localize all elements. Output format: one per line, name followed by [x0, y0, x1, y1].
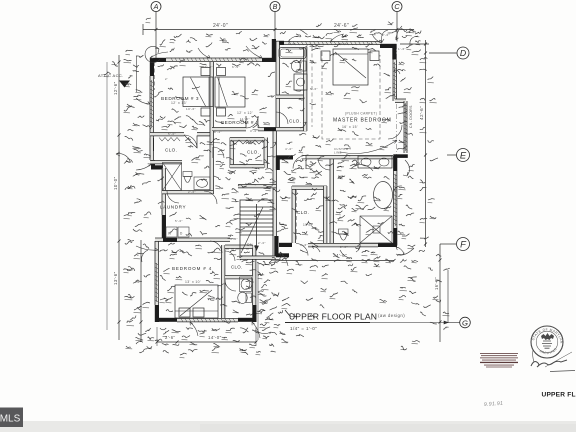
- annotation mark 205: [424, 305, 431, 308]
- extra annotation 132: [252, 330, 259, 333]
- svg-text:42'-6": 42'-6": [419, 106, 424, 120]
- grid bubble E: [457, 149, 470, 162]
- extra annotation 76: [226, 158, 233, 160]
- svg-text:B: B: [273, 2, 278, 11]
- extra annotation 66: [412, 260, 418, 262]
- grid B stem: [274, 12, 276, 45]
- extra annotation 94: [338, 161, 344, 164]
- annotation mark 88: [321, 288, 326, 290]
- lr tick1: [278, 259, 281, 262]
- wave4 annotation 12: [272, 257, 280, 260]
- extra annotation 119: [166, 297, 173, 301]
- leader small top right 2: [410, 36, 418, 45]
- grid bubble A: [151, 2, 161, 12]
- annotation mark 110: [380, 146, 388, 147]
- exterior wall jog at master right: [395, 99, 406, 102]
- stair break line: [241, 207, 263, 253]
- wave3 annotation 33: [296, 59, 301, 62]
- wave3 annotation 12: [366, 43, 372, 47]
- svg-text:2'-6": 2'-6": [188, 190, 196, 194]
- annotation mark 22: [127, 159, 133, 163]
- annotation mark 254: [274, 324, 280, 325]
- grid D leader: [429, 52, 457, 54]
- annotation mark 225: [222, 42, 229, 43]
- right dim line upper: [425, 40, 427, 247]
- annotation mark 143: [250, 296, 255, 298]
- annotation mark 16: [128, 76, 133, 78]
- extra annotation 27: [143, 244, 149, 249]
- annotation mark 36: [163, 330, 169, 334]
- extra annotation 98: [228, 235, 233, 236]
- annotation mark 136: [226, 207, 234, 208]
- extra annotation 46: [406, 30, 414, 33]
- annotation mark 111: [240, 58, 247, 60]
- wave3 annotation 4: [216, 64, 221, 67]
- annotation mark 84: [257, 309, 265, 311]
- leader arrow 2: [198, 48, 210, 58]
- master bath west wall: [330, 159, 333, 243]
- wave3 annotation 6: [248, 63, 255, 65]
- wave3 annotation 37: [214, 139, 220, 141]
- door master french swing: [388, 125, 402, 139]
- leader arrow 15: [190, 322, 198, 336]
- annotation mark 161: [246, 313, 253, 315]
- arrowhead at G line: [444, 321, 448, 324]
- annotation mark 163: [173, 344, 179, 346]
- annotation mark 91: [333, 254, 340, 258]
- annotation mark 125: [340, 190, 346, 192]
- door laundry: [167, 191, 179, 203]
- closet B2 west wall: [230, 138, 233, 169]
- wall master south thick west: [276, 155, 293, 159]
- wave3 annotation 98: [330, 221, 337, 224]
- wave3 annotation 66: [296, 261, 301, 265]
- wave3 annotation 59: [214, 274, 218, 276]
- svg-text:CLO.: CLO.: [289, 119, 301, 124]
- svg-text:8'-2": 8'-2": [214, 130, 222, 134]
- annotation mark 127: [336, 211, 342, 213]
- svg-text:5'-6": 5'-6": [310, 87, 318, 91]
- exterior wall top master block: [284, 42, 380, 45]
- wave3 annotation 32: [310, 60, 315, 63]
- annotation mark 63: [287, 142, 292, 144]
- annotation mark 95: [351, 267, 357, 270]
- thick wall end bed2 south: [264, 127, 276, 131]
- extra annotation 16: [134, 254, 139, 256]
- extra annotation 89: [300, 176, 308, 178]
- svg-text:1/4" = 1'-0": 1/4" = 1'-0": [290, 326, 317, 331]
- wave3 annotation 106: [216, 161, 224, 163]
- annotation mark 232: [388, 22, 393, 24]
- annotation mark 8: [342, 35, 348, 37]
- wave3 annotation 72: [374, 264, 379, 266]
- annotation mark 251: [401, 346, 407, 350]
- grid bubble G: [460, 317, 471, 328]
- master shower: [360, 216, 392, 243]
- exterior wall left thick at jog: [151, 160, 155, 166]
- annotation mark 154: [210, 271, 215, 273]
- annotation mark 150: [170, 254, 177, 256]
- bottom strip shade: [200, 424, 576, 432]
- exterior wall master right thick corner: [392, 44, 396, 60]
- door leaf master hall: [305, 156, 307, 169]
- annotation mark 26: [128, 211, 135, 214]
- wave3 annotation 3: [200, 64, 206, 66]
- closet lower west wall: [292, 186, 295, 243]
- leader arrow 18: [356, 244, 360, 252]
- annotation mark 226: [262, 42, 267, 44]
- wave3 annotation 79: [338, 175, 345, 178]
- annotation mark 3: [225, 48, 231, 50]
- leader arrow 11: [394, 70, 400, 74]
- extra annotation 125: [160, 328, 166, 330]
- wave3 annotation 88: [326, 197, 330, 201]
- closet B2 south wall: [230, 165, 264, 168]
- wave3 annotation 92: [374, 197, 380, 201]
- grid A stem: [155, 12, 157, 59]
- annotation mark 202: [399, 140, 404, 142]
- wave3 annotation 51: [160, 250, 168, 252]
- wave3 annotation 38: [230, 143, 237, 146]
- extra annotation 96: [246, 223, 252, 226]
- annotation mark 32: [128, 294, 134, 298]
- extra annotation 52: [398, 111, 407, 114]
- wave3 annotation 5: [232, 64, 241, 66]
- svg-text:14'-0": 14'-0": [208, 335, 222, 340]
- extra annotation 31: [174, 34, 182, 38]
- door bed4 closet: [225, 251, 235, 261]
- extra annotation 130: [226, 328, 235, 330]
- wave3 annotation 105: [204, 166, 209, 168]
- exterior wall bath bottom: [330, 244, 378, 247]
- annotation mark 15: [133, 65, 139, 67]
- exterior wall top-left thick corner: [150, 58, 166, 62]
- annotation mark 214: [271, 350, 276, 353]
- annotation mark 208: [341, 281, 348, 283]
- wave3 annotation 18: [268, 95, 275, 97]
- annotation mark 139: [242, 260, 247, 262]
- annotation mark 59: [207, 140, 214, 143]
- extra annotation 32: [190, 38, 197, 41]
- extra annotation 26: [144, 212, 151, 215]
- extra annotation 140: [162, 344, 169, 345]
- wall between bed2 and master bath: [276, 62, 279, 131]
- wave3 annotation 118: [228, 114, 232, 116]
- annotation mark 30: [128, 267, 135, 271]
- loop arrow top-left corner: [145, 46, 160, 62]
- wave3 annotation 63: [258, 273, 263, 276]
- annotation mark 235: [136, 55, 143, 57]
- bed B3 fold line: [191, 78, 206, 107]
- top dimension line: [143, 29, 414, 31]
- shower hall bath: [163, 163, 182, 191]
- annotation mark 103: [286, 81, 292, 85]
- annotation mark 44: [400, 122, 407, 124]
- extra annotation 30: [160, 40, 165, 46]
- exterior wall left thick seg1: [150, 138, 154, 151]
- svg-text:UPPER FLOOR PLAN: UPPER FLOOR PLAN: [289, 312, 377, 322]
- bed B4 pillow left: [179, 308, 190, 317]
- leader arrow 7: [396, 26, 402, 40]
- annotation mark 223: [186, 40, 191, 42]
- annotation mark 67: [229, 170, 236, 174]
- left dim tick d: [118, 321, 121, 324]
- extra annotation 127: [186, 328, 193, 330]
- sink hall bath: [194, 177, 210, 190]
- extra annotation 56: [398, 194, 402, 196]
- wave3 annotation 24: [338, 128, 346, 132]
- wave3 annotation 41: [158, 177, 164, 181]
- extra annotation 104: [310, 242, 318, 246]
- annotation mark 107: [326, 139, 334, 142]
- wall master closet east: [304, 95, 307, 131]
- annotation mark 209: [330, 293, 338, 297]
- wave3 annotation 52: [172, 250, 179, 252]
- extra annotation 74: [412, 50, 421, 53]
- annotation mark 187: [266, 169, 273, 171]
- svg-text:(aw design): (aw design): [378, 313, 405, 318]
- wave3 annotation 97: [318, 232, 324, 233]
- wave3 annotation 20: [300, 108, 304, 111]
- window hatch left bed4: [155, 263, 159, 302]
- annotation mark 69: [201, 179, 207, 180]
- wave3 annotation 16: [216, 120, 224, 124]
- bed B2 nightstand upper: [217, 68, 226, 76]
- annotation mark 60: [221, 143, 226, 145]
- wave3 annotation 75: [292, 167, 300, 171]
- toilet upper bath: [291, 60, 306, 71]
- annotation mark 100: [380, 299, 387, 301]
- annotation mark 70: [246, 183, 251, 185]
- extra annotation 57: [406, 213, 414, 216]
- wall master closet south: [276, 128, 307, 131]
- annotation mark 114: [167, 66, 172, 70]
- extra annotation 51: [404, 87, 411, 90]
- bottom tick 2: [176, 341, 179, 344]
- leader master bath: [355, 165, 373, 171]
- closet lower east wall: [324, 186, 327, 243]
- svg-text:2': 2': [165, 77, 168, 81]
- annotation mark 2: [187, 50, 193, 52]
- wave4 annotation 7: [259, 310, 265, 312]
- extra annotation 14: [133, 229, 142, 232]
- annotation mark 198: [352, 165, 358, 168]
- annotation mark 74: [332, 200, 339, 202]
- svg-text:A: A: [153, 2, 159, 11]
- extra annotation 131: [240, 328, 248, 330]
- extra annotation 78: [256, 154, 261, 158]
- wave3 annotation 13: [155, 91, 163, 97]
- exterior wall right thick below E: [393, 156, 397, 171]
- exterior wall left bed4 window: [155, 260, 158, 305]
- annotation mark 124: [350, 179, 355, 184]
- bed B3 nightstand upper: [201, 68, 210, 76]
- annotation mark 156: [218, 284, 224, 287]
- lr tick2: [393, 259, 396, 262]
- extra annotation 54: [398, 146, 408, 150]
- grid bubble C: [392, 2, 402, 12]
- bottom tick 1: [156, 341, 159, 344]
- extra annotation 88: [288, 178, 295, 180]
- left dim line 2: [140, 240, 142, 342]
- svg-text:BEDROOM # 4: BEDROOM # 4: [172, 266, 212, 271]
- leader arrow 13: [396, 247, 404, 254]
- wall bath block west upper: [276, 42, 279, 63]
- annotation mark 174: [199, 122, 205, 126]
- annotation mark 162: [155, 339, 162, 341]
- wave3 annotation 64: [260, 300, 268, 303]
- annotation mark 180: [196, 156, 204, 158]
- wave3 annotation 112: [238, 185, 247, 187]
- title underline: [285, 322, 370, 324]
- extra annotation 109: [240, 96, 249, 99]
- annotation mark 191: [300, 133, 306, 135]
- svg-text:CN. DOORS: CN. DOORS: [409, 105, 413, 128]
- exterior wall master bath window: [394, 171, 397, 228]
- extra annotation 118: [182, 292, 188, 295]
- extra annotation 63: [412, 302, 419, 305]
- wave3 annotation 30: [340, 59, 347, 61]
- annotation mark 190: [274, 189, 280, 192]
- annotation mark 207: [352, 290, 357, 293]
- extra annotation 114: [326, 91, 334, 94]
- annotation mark 148: [208, 251, 215, 253]
- exterior wall right thick bottom corner: [393, 228, 397, 246]
- wave3 annotation 19: [268, 72, 275, 77]
- annotation mark 13: [416, 41, 421, 43]
- wave4 annotation 2: [263, 261, 269, 264]
- door bedroom3: [184, 135, 197, 148]
- wall bed4 top: [155, 238, 230, 241]
- door master suite: [276, 112, 288, 124]
- annotation mark 129: [332, 232, 339, 234]
- wave3 annotation 57: [160, 276, 166, 281]
- extra annotation 116: [200, 290, 209, 291]
- wall master bath east: [304, 47, 307, 95]
- title extension line: [370, 322, 448, 324]
- door bedroom2 leaf: [245, 116, 247, 128]
- annotation mark 80: [301, 281, 308, 284]
- wave3 annotation 65: [282, 257, 288, 260]
- bed B4 fold line: [180, 290, 212, 316]
- annotation mark 121: [296, 159, 303, 162]
- annotation mark 133: [232, 199, 239, 202]
- annotation mark 34: [130, 316, 136, 321]
- annotation mark 216: [163, 350, 169, 353]
- annotation mark 185: [258, 177, 264, 179]
- glass line french doors: [405, 103, 407, 151]
- leader right side F: [396, 248, 414, 255]
- exterior wall master right window: [393, 60, 396, 102]
- exterior wall french doors master: [404, 101, 407, 153]
- right dim tick 2: [424, 154, 427, 157]
- wave3 annotation 78: [326, 163, 334, 166]
- exterior wall left bed4 thick: [155, 305, 159, 322]
- annotation mark 204: [410, 291, 416, 294]
- annotation mark 120: [310, 170, 317, 172]
- annotation mark 77: [257, 262, 264, 266]
- attic access triangle: [119, 81, 130, 88]
- leader arrow 12: [394, 186, 402, 190]
- extra annotation 82: [246, 198, 252, 199]
- dim tick B: [274, 28, 277, 31]
- extra annotation 86: [298, 166, 304, 169]
- extra annotation 4: [134, 95, 141, 97]
- wave3 annotation 56: [244, 252, 250, 253]
- annotation mark 73: [311, 193, 317, 197]
- wave3 annotation 2: [170, 66, 178, 68]
- annotation mark 178: [162, 125, 170, 127]
- annotation mark 132: [244, 194, 249, 195]
- wall master bath south: [276, 95, 304, 98]
- extra annotation 93: [352, 160, 360, 163]
- extra annotation 107: [192, 87, 200, 89]
- extra annotation 87: [310, 162, 316, 164]
- extra annotation 77: [240, 154, 247, 156]
- wave3 annotation 14: [156, 119, 163, 121]
- leader arrow 1: [150, 52, 168, 58]
- annotation mark 238: [420, 58, 427, 60]
- window hatch left bed3: [150, 81, 154, 127]
- annotation mark 236: [112, 62, 118, 66]
- wave3 annotation 54: [214, 248, 220, 251]
- grid A dashed continuation: [154, 62, 156, 90]
- annotation mark 159: [220, 304, 227, 306]
- extra annotation 67: [420, 237, 429, 239]
- annotation mark 4: [243, 50, 249, 52]
- master ceiling dashed: [322, 52, 380, 139]
- extra annotation 75: [218, 150, 225, 152]
- tub upper bath: [279, 48, 306, 59]
- wave3 annotation 23: [310, 104, 316, 105]
- svg-text:1'-6": 1'-6": [398, 47, 406, 51]
- MLS watermark box: [0, 408, 23, 428]
- extra annotation 49: [310, 44, 316, 47]
- svg-text:24'-0": 24'-0": [213, 23, 228, 29]
- annotation mark 46: [399, 187, 405, 188]
- window hatch bottom bed4: [181, 318, 235, 322]
- svg-text:E: E: [460, 149, 467, 160]
- annotation mark 155: [206, 280, 214, 282]
- leader left bed4: [142, 250, 148, 262]
- exterior thick corner at E line: [393, 154, 408, 158]
- door hall bath leaf: [212, 147, 214, 158]
- extra annotation 121: [348, 196, 356, 198]
- wave3 annotation 90: [350, 196, 357, 199]
- annotation mark 101: [290, 61, 296, 64]
- wave3 annotation 119: [240, 120, 246, 123]
- wave3 annotation 89: [338, 207, 346, 209]
- svg-text:D: D: [180, 232, 183, 236]
- closet B2 north wall: [230, 138, 264, 141]
- wave3 annotation 49: [216, 225, 220, 227]
- annotation mark 10: [368, 48, 376, 51]
- annotation mark 172: [253, 124, 259, 127]
- extra annotation 40: [313, 35, 319, 37]
- annotation mark 56: [443, 312, 449, 314]
- extra annotation 123: [338, 215, 345, 219]
- extra annotation 80: [222, 194, 229, 196]
- annotation mark 229: [334, 29, 341, 32]
- annotation mark 19: [138, 116, 144, 118]
- annotation mark 177: [160, 116, 165, 118]
- master bed mattress: [333, 49, 368, 85]
- exterior thick corner bath block left: [272, 39, 276, 62]
- extra annotation 73: [420, 69, 427, 70]
- svg-text:8'-0": 8'-0": [288, 42, 296, 46]
- extra annotation 111: [344, 93, 350, 96]
- annotation mark 113: [180, 59, 185, 63]
